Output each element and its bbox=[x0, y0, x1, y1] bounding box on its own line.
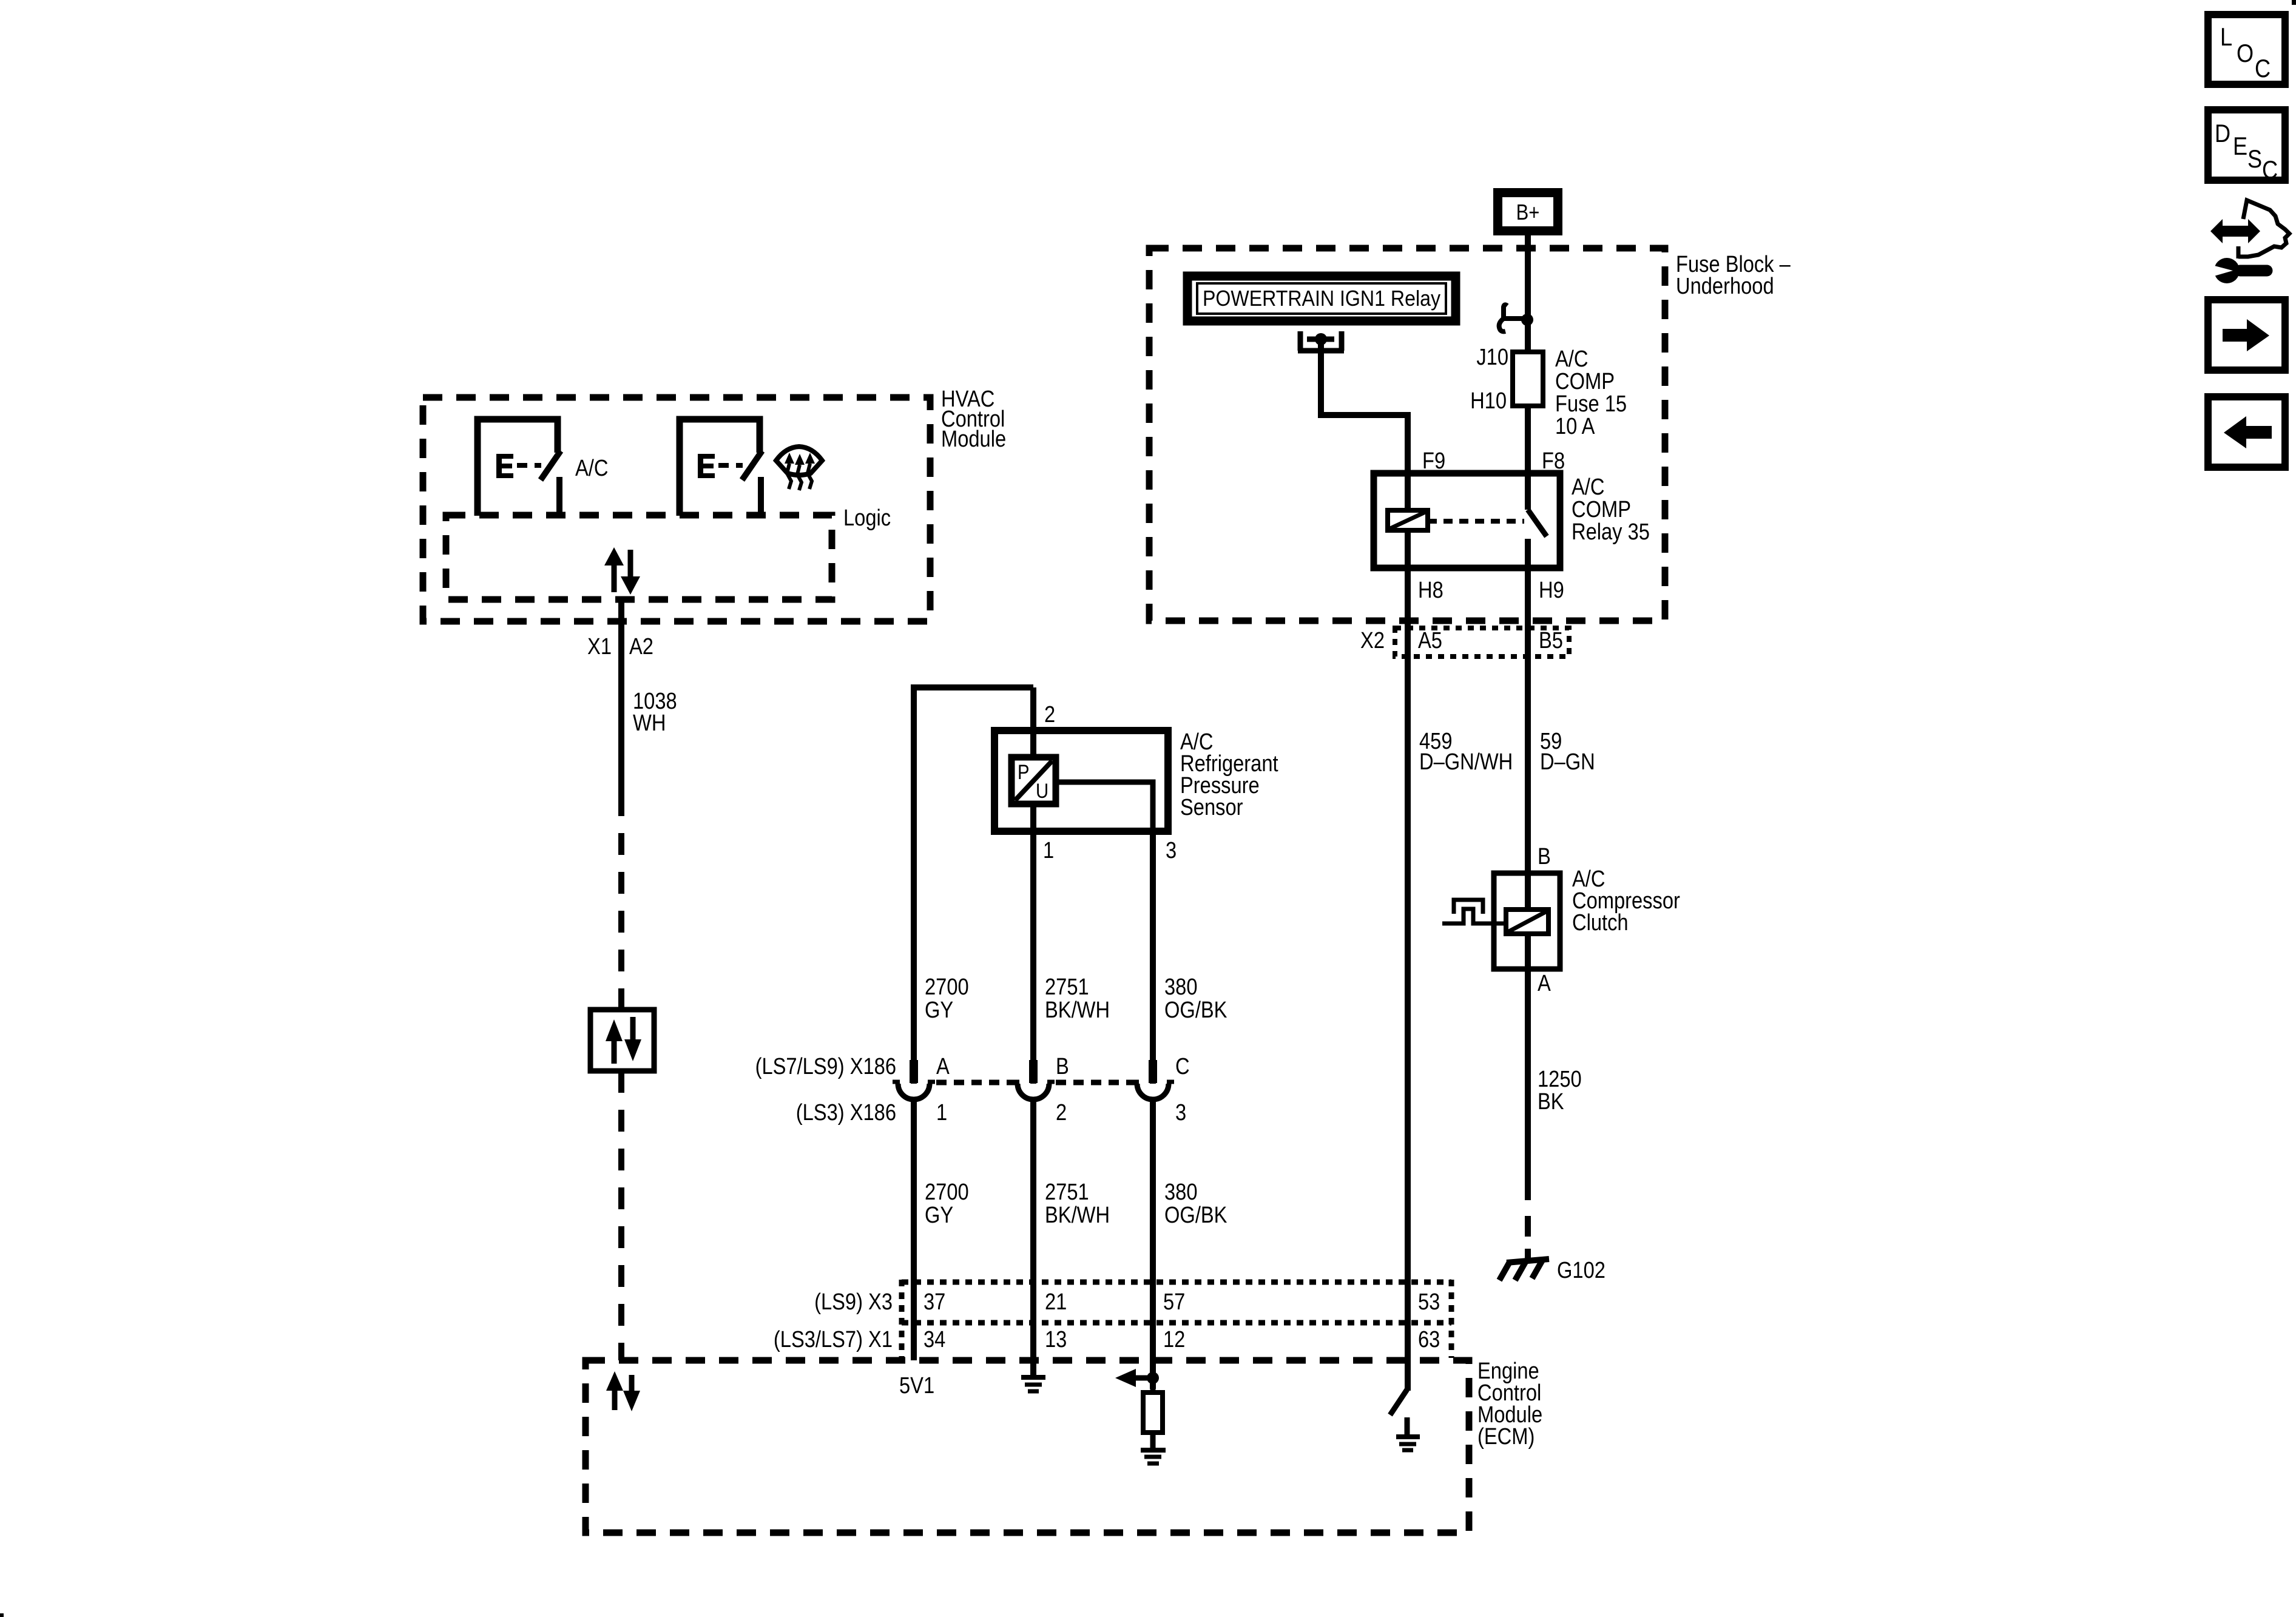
svg-text:H9: H9 bbox=[1539, 577, 1564, 603]
serial data arrow box bbox=[590, 1010, 654, 1071]
ECM driver switch (pin 53/63) bbox=[1390, 1389, 1407, 1434]
svg-text:13: 13 bbox=[1045, 1326, 1067, 1352]
wire through relay left bbox=[1405, 473, 1411, 568]
sensor label bbox=[1180, 729, 1278, 820]
switch SW1 actuator dashed link bbox=[517, 463, 541, 468]
connector X186 pin A/1 bbox=[893, 1060, 935, 1099]
svg-text:X1: X1 bbox=[587, 633, 612, 660]
svg-text:P: P bbox=[1018, 760, 1029, 784]
signal arrow left bbox=[1115, 1369, 1153, 1387]
svg-text:WH: WH bbox=[633, 710, 666, 736]
sensor internal output wire bbox=[1056, 782, 1153, 831]
svg-text:BK/WH: BK/WH bbox=[1045, 997, 1110, 1023]
clutch box bbox=[1494, 873, 1560, 969]
svg-text:Clutch: Clutch bbox=[1572, 910, 1629, 936]
svg-text:3: 3 bbox=[1166, 837, 1177, 863]
node junction at fuse feed bbox=[1521, 314, 1533, 326]
svg-text:C: C bbox=[1175, 1053, 1190, 1079]
wire fuse to relay bbox=[1525, 406, 1531, 510]
connector row (LS9) X3 bbox=[902, 1282, 1451, 1323]
connector dashed link A-B bbox=[936, 1080, 1016, 1085]
wire H8 down (459 D-GN/WH) bbox=[1405, 568, 1411, 1391]
fuse A/C COMP Fuse 15 bbox=[1513, 352, 1543, 406]
svg-text:H8: H8 bbox=[1418, 577, 1443, 603]
svg-text:2700: 2700 bbox=[925, 974, 969, 1000]
svg-text:5V1: 5V1 bbox=[899, 1372, 934, 1399]
svg-text:3: 3 bbox=[1175, 1099, 1186, 1126]
wire labels upper bbox=[925, 974, 1227, 1023]
svg-text:34: 34 bbox=[923, 1326, 945, 1352]
svg-text:B5: B5 bbox=[1539, 627, 1563, 653]
wire pin2 bbox=[1030, 687, 1036, 760]
wire labels lower bbox=[925, 1179, 1227, 1228]
svg-text:A2: A2 bbox=[629, 633, 653, 660]
wire from IGN1 relay to A/C relay coil bbox=[1321, 339, 1408, 473]
svg-text:57: 57 bbox=[1163, 1289, 1185, 1315]
svg-text:Relay 35: Relay 35 bbox=[1572, 519, 1650, 545]
Fuse Block label bbox=[1676, 251, 1791, 299]
connector X2 bbox=[1395, 628, 1569, 657]
ground inside ECM (pin 21/13) bbox=[1021, 1360, 1045, 1391]
svg-text:S: S bbox=[2247, 146, 2262, 174]
wire 2700 GY lower bbox=[911, 1100, 917, 1360]
ground G102 bbox=[1499, 1249, 1549, 1280]
POWERTRAIN IGN1 Relay box bbox=[1187, 276, 1456, 321]
switch SW2 lower contact bbox=[758, 477, 764, 516]
icon box DESC bbox=[2208, 110, 2285, 184]
wire 2751 BK/WH (pin 1) bbox=[1030, 804, 1036, 1084]
svg-text:D: D bbox=[2215, 120, 2230, 148]
svg-text:OG/BK: OG/BK bbox=[1164, 997, 1227, 1023]
svg-text:2751: 2751 bbox=[1045, 974, 1089, 1000]
defrost icon bbox=[776, 447, 822, 490]
corner mark bottom-left bbox=[0, 1613, 4, 1617]
wire 2700 GY (pin A/1 wire) bbox=[911, 687, 917, 1084]
svg-text:O: O bbox=[2237, 40, 2254, 68]
wire labels 459 / 59 bbox=[1419, 728, 1595, 775]
icon box left-arrow bbox=[2208, 397, 2285, 467]
svg-text:BK/WH: BK/WH bbox=[1045, 1202, 1110, 1228]
svg-text:(LS7/LS9) X186: (LS7/LS9) X186 bbox=[755, 1053, 896, 1079]
svg-text:53: 53 bbox=[1418, 1289, 1440, 1315]
ECM label bbox=[1477, 1358, 1542, 1450]
HVAC Control Module box bbox=[423, 397, 930, 621]
connector row (LS3/LS7) X1 bbox=[902, 1280, 1451, 1358]
svg-text:F8: F8 bbox=[1542, 448, 1565, 474]
logic serial-data arrows bbox=[604, 547, 640, 595]
svg-text:Sensor: Sensor bbox=[1180, 794, 1243, 820]
ground under resistor bbox=[1141, 1450, 1166, 1463]
icon box LOC bbox=[2208, 15, 2285, 84]
switch SW1 blade bbox=[541, 451, 561, 480]
svg-text:F9: F9 bbox=[1422, 448, 1445, 474]
svg-text:Module: Module bbox=[941, 426, 1006, 452]
connector X186 pin C/3 bbox=[1132, 1060, 1174, 1099]
wire H9 down (59 D-GN) bbox=[1525, 539, 1531, 910]
wire 380 OG/BK (pin 3) bbox=[1150, 831, 1156, 1084]
svg-text:GY: GY bbox=[925, 1202, 953, 1228]
connector dashed link B-C bbox=[1056, 1080, 1136, 1085]
relay switch blade bbox=[1528, 510, 1547, 536]
labels A B C bbox=[936, 1053, 1190, 1079]
wire 1038 WH dashed lower bbox=[618, 1071, 624, 1360]
svg-text:A5: A5 bbox=[1418, 627, 1442, 653]
svg-text:(LS3) X186: (LS3) X186 bbox=[796, 1099, 896, 1126]
wire label 1250 BK bbox=[1538, 1066, 1582, 1115]
svg-text:C: C bbox=[2262, 157, 2278, 184]
svg-text:2751: 2751 bbox=[1045, 1179, 1089, 1205]
svg-text:(LS9) X3: (LS9) X3 bbox=[814, 1289, 893, 1315]
svg-text:21: 21 bbox=[1045, 1289, 1067, 1315]
wire 1038 WH dashed upper bbox=[618, 794, 624, 1010]
relay dashed actuator link bbox=[1428, 519, 1524, 524]
fuse label bbox=[1555, 346, 1627, 439]
clutch coil bbox=[1506, 910, 1548, 934]
svg-text:1: 1 bbox=[1043, 837, 1054, 863]
svg-text:37: 37 bbox=[923, 1289, 945, 1315]
svg-text:C: C bbox=[2255, 55, 2271, 83]
sensor P/U symbol bbox=[1011, 757, 1056, 804]
thermal limiter symbol bbox=[1442, 900, 1506, 923]
svg-text:Logic: Logic bbox=[843, 505, 891, 531]
svg-text:D–GN: D–GN bbox=[1540, 749, 1595, 775]
Logic box bbox=[446, 515, 832, 599]
svg-text:Underhood: Underhood bbox=[1676, 273, 1774, 299]
svg-text:BK: BK bbox=[1538, 1089, 1564, 1115]
node junction pin 57/12 bbox=[1147, 1372, 1159, 1384]
labels 1 2 3 bbox=[936, 1099, 1186, 1126]
svg-text:B: B bbox=[1538, 843, 1551, 869]
pins row 2 bbox=[923, 1326, 1440, 1352]
wire B+ to fuse bbox=[1525, 235, 1531, 352]
wire dashed to ground bbox=[1525, 1180, 1531, 1241]
switch SW2 defrost frame bbox=[680, 419, 760, 516]
ground under switch bbox=[1396, 1437, 1420, 1450]
svg-text:A: A bbox=[936, 1053, 950, 1079]
svg-text:2700: 2700 bbox=[925, 1179, 969, 1205]
svg-text:X2: X2 bbox=[1360, 627, 1385, 653]
svg-text:L: L bbox=[2220, 24, 2232, 52]
switch SW2 actuator E bbox=[698, 454, 715, 478]
switch SW1 A/C frame bbox=[478, 419, 558, 516]
ECM box bbox=[586, 1360, 1469, 1533]
A/C COMP Relay box bbox=[1374, 473, 1560, 568]
switch SW2 actuator dashed link bbox=[718, 463, 743, 468]
svg-text:380: 380 bbox=[1164, 1179, 1198, 1205]
svg-text:D–GN/WH: D–GN/WH bbox=[1419, 749, 1513, 775]
wire 380 OG/BK lower bbox=[1150, 1100, 1156, 1389]
battery feed B+ bbox=[1493, 188, 1562, 235]
ECM serial data arrows bbox=[606, 1371, 640, 1411]
svg-text:A/C: A/C bbox=[575, 455, 608, 481]
switch SW2 blade bbox=[742, 451, 762, 480]
clutch labels bbox=[1572, 866, 1680, 936]
svg-text:1: 1 bbox=[936, 1099, 947, 1126]
wire 1038 WH solid bbox=[618, 599, 624, 794]
label 1038 WH bbox=[633, 688, 677, 736]
svg-text:380: 380 bbox=[1164, 974, 1198, 1000]
svg-text:2: 2 bbox=[1056, 1099, 1067, 1126]
HVAC Control Module label bbox=[941, 386, 1006, 452]
svg-text:B: B bbox=[1056, 1053, 1069, 1079]
resistor in ECM bbox=[1143, 1378, 1163, 1448]
svg-text:E: E bbox=[2233, 133, 2247, 161]
switch SW1 lower contact bbox=[556, 477, 562, 516]
svg-text:(ECM): (ECM) bbox=[1477, 1423, 1535, 1450]
relay coil bbox=[1388, 510, 1428, 530]
svg-text:A: A bbox=[1538, 970, 1551, 996]
svg-text:H10: H10 bbox=[1470, 388, 1507, 414]
relay coil terminal bracket bbox=[1298, 331, 1344, 351]
wire 2751 BK/WH lower bbox=[1030, 1100, 1036, 1360]
svg-text:J10: J10 bbox=[1476, 344, 1508, 370]
switch SW1 actuator E bbox=[496, 454, 513, 478]
icon box right-arrow bbox=[2208, 300, 2285, 370]
svg-text:63: 63 bbox=[1418, 1326, 1440, 1352]
sensor box bbox=[994, 731, 1168, 831]
svg-text:U: U bbox=[1036, 779, 1048, 803]
corner mark top-right bbox=[2292, 0, 2296, 5]
pins row 1 bbox=[923, 1289, 1440, 1315]
svg-text:12: 12 bbox=[1163, 1326, 1185, 1352]
svg-text:GY: GY bbox=[925, 997, 953, 1023]
svg-text:POWERTRAIN IGN1 Relay: POWERTRAIN IGN1 Relay bbox=[1203, 286, 1440, 311]
Fuse Block Underhood box bbox=[1149, 248, 1665, 621]
svg-text:G102: G102 bbox=[1557, 1257, 1606, 1283]
svg-text:OG/BK: OG/BK bbox=[1164, 1202, 1227, 1228]
relay labels bbox=[1572, 474, 1650, 545]
diagnostic hand/wrench icon bbox=[2210, 200, 2289, 283]
svg-text:B+: B+ bbox=[1516, 201, 1540, 225]
svg-text:2: 2 bbox=[1044, 701, 1055, 727]
svg-text:10 A: 10 A bbox=[1555, 413, 1595, 439]
svg-text:(LS3/LS7) X1: (LS3/LS7) X1 bbox=[774, 1326, 893, 1352]
wire link top bbox=[911, 684, 1033, 690]
connector X186 pin B/2 bbox=[1012, 1060, 1055, 1099]
wire 1250 BK bbox=[1525, 934, 1531, 1180]
bus clip symbol bbox=[1499, 305, 1523, 331]
